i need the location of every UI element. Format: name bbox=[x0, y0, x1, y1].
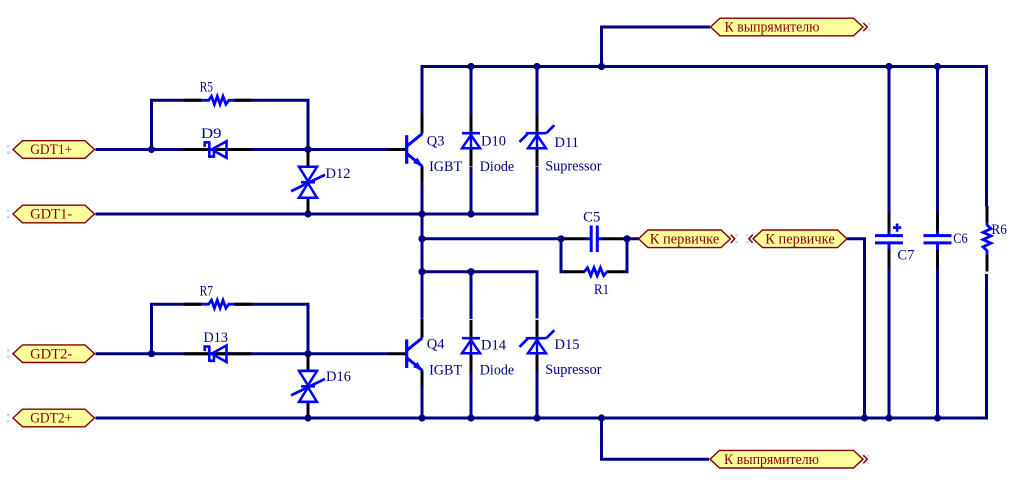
wire D14 column upper bbox=[470, 272, 473, 319]
suppressor D11 bbox=[520, 115, 602, 175]
wire R1 stub right bbox=[622, 270, 629, 273]
node top rail / flag drop junction bbox=[598, 63, 605, 70]
svg-text:R5: R5 bbox=[200, 80, 213, 96]
wire R6 column lower bbox=[985, 274, 988, 420]
svg-text:D14: D14 bbox=[481, 338, 507, 354]
svg-text:GDT2-: GDT2- bbox=[30, 346, 72, 362]
svg-text:IGBT: IGBT bbox=[429, 363, 462, 379]
wire GDT1+ net bbox=[96, 148, 389, 151]
svg-text:IGBT: IGBT bbox=[429, 159, 462, 175]
wire R1 loop right bbox=[626, 239, 629, 273]
diode D14 bbox=[462, 320, 514, 379]
wire R7 loop right bbox=[235, 304, 308, 354]
node bottom rail / Q4 emitter junction bbox=[418, 414, 425, 421]
svg-text:Diode: Diode bbox=[480, 159, 514, 175]
wire Q3/Q4 interconnect bbox=[421, 214, 424, 272]
diode D9 bbox=[184, 126, 252, 158]
resistor R6 bbox=[983, 206, 1007, 272]
hotspot marks bbox=[7, 22, 870, 463]
node GDT1-/Q3 emitter junction bbox=[418, 210, 425, 217]
svg-text:GDT2+: GDT2+ bbox=[30, 411, 72, 427]
svg-text:D13: D13 bbox=[204, 330, 229, 346]
capacitor C7 bbox=[875, 213, 914, 268]
svg-text:C7: C7 bbox=[897, 248, 914, 264]
wire D15 column lower bbox=[536, 371, 539, 418]
svg-text:R7: R7 bbox=[200, 284, 213, 300]
wire Q4 top rail bbox=[422, 272, 537, 319]
wire to top rectifier flag bbox=[602, 27, 711, 67]
svg-text:D12: D12 bbox=[326, 166, 351, 182]
wire GDT2- net bbox=[96, 352, 389, 355]
diode D13 bbox=[184, 330, 252, 362]
port K pervichke 2 bbox=[749, 230, 847, 248]
resistor R1 bbox=[564, 268, 624, 298]
wire D11 column upper bbox=[536, 67, 539, 116]
svg-text:D16: D16 bbox=[326, 369, 351, 385]
port GDT2+ bbox=[13, 409, 95, 427]
wire D11 column lower bbox=[536, 167, 539, 216]
wire R6 column upper bbox=[985, 65, 988, 206]
transistor Q3 bbox=[388, 115, 462, 183]
node bottom rail / D14 junction bbox=[467, 414, 474, 421]
port GDT2- bbox=[13, 345, 95, 363]
node GDT1-/D12 junction bbox=[304, 210, 311, 217]
suppressor D16 bbox=[291, 355, 351, 416]
svg-text:К выпрямителю: К выпрямителю bbox=[725, 20, 820, 36]
wire to bottom rectifier flag bbox=[602, 418, 710, 459]
svg-text:D10: D10 bbox=[481, 134, 506, 150]
wire R5 loop right bbox=[235, 100, 308, 149]
node GDT1-/D10 junction bbox=[467, 210, 474, 217]
svg-text:Supressor: Supressor bbox=[545, 362, 601, 378]
svg-text:C5: C5 bbox=[583, 210, 600, 226]
svg-text:D9: D9 bbox=[201, 126, 222, 142]
capacitor C5 bbox=[565, 210, 623, 253]
wire R7 loop left bbox=[152, 304, 202, 354]
node snubber/Q3 junction bbox=[418, 235, 425, 242]
wire R5 loop left bbox=[152, 100, 202, 149]
node GDT1+/R5 junction bbox=[148, 146, 155, 153]
resistor R5 bbox=[184, 80, 252, 105]
svg-text:К первичке: К первичке bbox=[650, 231, 720, 247]
svg-text:GDT1-: GDT1- bbox=[30, 207, 72, 223]
svg-text:R6: R6 bbox=[992, 222, 1007, 238]
wire C7 column lower bbox=[888, 267, 891, 418]
wire Q4 collector to rail bbox=[421, 272, 424, 319]
wire snubber net bbox=[421, 237, 567, 240]
node bottom rail / D15 junction bbox=[533, 414, 540, 421]
wire D10 column lower bbox=[470, 167, 473, 214]
node Q4 rail / D14 junction bbox=[467, 268, 474, 275]
resistor R7 bbox=[184, 284, 252, 309]
svg-text:К первичке: К первичке bbox=[765, 231, 835, 247]
node C6 top rail junction bbox=[934, 63, 941, 70]
transistor Q4 bbox=[388, 319, 462, 387]
wire top collector rail bbox=[421, 65, 989, 68]
wire C5 right to flag bbox=[622, 237, 639, 240]
wire GDT2+ bottom rail bbox=[96, 417, 989, 420]
wire primary flag 2 to bottom rail bbox=[847, 239, 865, 418]
node bottom rail / primary wire junction bbox=[861, 414, 868, 421]
port GDT1+ bbox=[13, 141, 95, 159]
wire R1 stub left bbox=[560, 270, 567, 273]
node snubber/C5 right junction bbox=[623, 235, 630, 242]
node D11 top rail junction bbox=[533, 63, 540, 70]
svg-text:Q3: Q3 bbox=[427, 133, 445, 149]
svg-text:GDT1+: GDT1+ bbox=[30, 142, 72, 158]
suppressor D12 bbox=[291, 151, 350, 213]
svg-text:D15: D15 bbox=[555, 337, 580, 353]
wire R1 loop left bbox=[560, 239, 563, 273]
node snubber/C5 left junction bbox=[557, 235, 564, 242]
diode D10 bbox=[462, 115, 514, 175]
svg-text:Diode: Diode bbox=[480, 363, 514, 379]
wire C7 column upper bbox=[888, 67, 891, 214]
port K vypryamitelyu bottom bbox=[710, 450, 867, 468]
node GDT2-/D16 junction bbox=[304, 350, 311, 357]
node Q4 rail / Q3 column junction bbox=[418, 268, 425, 275]
svg-text:D11: D11 bbox=[555, 135, 579, 151]
wire C6 column lower bbox=[936, 267, 939, 418]
svg-text:Q4: Q4 bbox=[427, 336, 445, 352]
wire D14 column lower bbox=[470, 371, 473, 418]
port K vypryamitelyu top bbox=[711, 18, 868, 36]
port K pervichke 1 bbox=[639, 230, 735, 248]
wire C6 column upper bbox=[936, 67, 939, 214]
node GDT1+/D12 junction bbox=[304, 146, 311, 153]
node bottom rail / C6 junction bbox=[934, 414, 941, 421]
node bottom rail / C7 junction bbox=[885, 414, 892, 421]
svg-text:R1: R1 bbox=[594, 282, 609, 298]
svg-text:Supressor: Supressor bbox=[545, 159, 601, 175]
suppressor D15 bbox=[520, 320, 602, 378]
node bottom rail / flag drop junction bbox=[598, 414, 605, 421]
node C7 top rail junction bbox=[885, 63, 892, 70]
svg-text:К выпрямителю: К выпрямителю bbox=[724, 452, 819, 468]
wire Q3 collector to rail bbox=[421, 65, 424, 115]
node D10 top rail junction bbox=[467, 63, 474, 70]
wire Q4 emitter down bbox=[421, 386, 424, 419]
capacitor C6 bbox=[924, 213, 968, 268]
node bottom rail / D16 junction bbox=[304, 414, 311, 421]
svg-text:C6: C6 bbox=[953, 231, 967, 247]
node GDT2-/R7 junction bbox=[148, 350, 155, 357]
port GDT1- bbox=[13, 205, 95, 223]
wire GDT1- net bbox=[96, 213, 539, 216]
wire D10 column upper bbox=[470, 67, 473, 116]
wire Q3 emitter down bbox=[421, 182, 424, 214]
